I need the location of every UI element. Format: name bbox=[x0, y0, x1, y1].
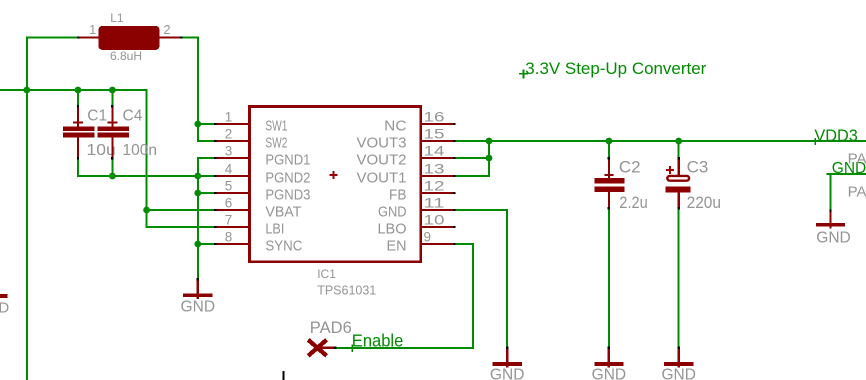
svg-text:TPS61031: TPS61031 bbox=[317, 284, 376, 298]
wire C3 bottom lead bbox=[678, 210, 680, 348]
net label VDD3 bbox=[815, 138, 817, 145]
junction C1 top bbox=[75, 87, 82, 94]
wire to pin8 SYNC bbox=[198, 243, 214, 245]
wire C1 top lead stub bbox=[77, 89, 79, 106]
IC1 pin 5 stub bbox=[214, 192, 217, 194]
wire top VBAT bus y=90 bbox=[0, 89, 148, 91]
C1 bottom lead bbox=[77, 137, 79, 157]
C3 plate 2 bbox=[666, 186, 691, 192]
svg-text:EN: EN bbox=[387, 237, 407, 254]
svg-text:VOUT2: VOUT2 bbox=[357, 151, 407, 168]
svg-text:5: 5 bbox=[225, 179, 233, 194]
IC1 pin 13 stub bbox=[421, 175, 454, 177]
IC1 pin 7 stub bbox=[214, 226, 217, 228]
svg-text:GND: GND bbox=[378, 203, 407, 220]
svg-text:PAD6: PAD6 bbox=[310, 319, 352, 337]
junction C2 top bbox=[606, 138, 613, 145]
capacitor C1 top lead bbox=[77, 105, 79, 108]
svg-text:C3: C3 bbox=[687, 157, 709, 176]
ground under C3 bbox=[678, 347, 680, 350]
IC1 pin 8 stub bbox=[214, 243, 217, 245]
IC1 polarity plus mark bbox=[330, 174, 338, 176]
svg-text:PGND1: PGND1 bbox=[265, 151, 310, 168]
capacitor C3 top lead bbox=[678, 157, 680, 160]
junction bus/left vertical bbox=[23, 87, 30, 94]
svg-text:Enable: Enable bbox=[352, 330, 404, 350]
svg-text:GND: GND bbox=[661, 366, 696, 380]
wire SW vertical x=197.8 bbox=[197, 37, 199, 143]
L1 pin2 stub bbox=[160, 36, 181, 38]
ground under C2 bbox=[608, 347, 610, 350]
svg-text:GND: GND bbox=[181, 299, 216, 316]
junction VOUT2 bbox=[486, 155, 493, 162]
svg-text:VOUT3: VOUT3 bbox=[357, 134, 407, 151]
capacitor C4 top lead bbox=[111, 105, 113, 108]
title 3.3V Step-Up Converter origin cross bbox=[519, 73, 528, 75]
C1 plate 2 bbox=[63, 133, 95, 138]
wire L1 pin2 to corner bbox=[182, 37, 199, 39]
svg-text:15: 15 bbox=[424, 127, 445, 142]
C1 polarity tick bbox=[73, 122, 83, 124]
wire PGND vertical x=197.8 bbox=[197, 157, 199, 279]
IC1 pin 4 stub bbox=[214, 175, 217, 177]
svg-text:4: 4 bbox=[225, 162, 233, 177]
svg-text:100n: 100n bbox=[123, 142, 157, 159]
junction VOUT rail bbox=[486, 138, 493, 145]
junction C4 top bbox=[109, 87, 116, 94]
C4 plate 1 bbox=[97, 126, 129, 131]
svg-text:3: 3 bbox=[225, 144, 233, 159]
C3 plate 1 outline bbox=[667, 176, 689, 181]
pad PAD6 cross bbox=[308, 340, 326, 356]
wire VOUT vertical x=489 bbox=[488, 140, 490, 177]
svg-text:VDD3: VDD3 bbox=[814, 126, 858, 145]
wire pin9 EN bbox=[455, 243, 474, 245]
C4 polarity tick bbox=[107, 122, 117, 124]
svg-text:GND: GND bbox=[0, 299, 9, 316]
svg-text:GND: GND bbox=[592, 366, 627, 380]
svg-text:10: 10 bbox=[424, 213, 445, 228]
IC1 pin 9 stub bbox=[421, 243, 454, 245]
IC1 pin 10 stub bbox=[421, 226, 454, 228]
L1 pin1 stub bbox=[77, 36, 80, 38]
IC1 pin 2 stub bbox=[214, 140, 217, 142]
svg-text:16: 16 bbox=[424, 110, 445, 125]
svg-text:L1: L1 bbox=[110, 11, 124, 25]
svg-text:GND: GND bbox=[816, 230, 851, 247]
ground top right bbox=[829, 210, 831, 213]
wire to pin3 PGND1 bbox=[197, 157, 214, 159]
svg-text:6: 6 bbox=[225, 196, 233, 211]
junction VBAT pin6 bbox=[143, 207, 150, 214]
C4 plate 2 bbox=[97, 133, 129, 138]
wire pin14 VOUT2 bbox=[455, 157, 490, 159]
svg-text:2: 2 bbox=[225, 127, 233, 142]
IC1 pin 6 stub bbox=[214, 209, 217, 211]
C3 plus sign bbox=[666, 169, 674, 171]
C2 polarity tick bbox=[604, 174, 613, 176]
junction SW1 bbox=[194, 121, 201, 128]
wire C1/C4 bottom bus y=176 bbox=[77, 175, 199, 177]
svg-text:SW2: SW2 bbox=[265, 134, 287, 151]
svg-text:6.8uH: 6.8uH bbox=[110, 49, 142, 63]
svg-text:3.3V Step-Up Converter: 3.3V Step-Up Converter bbox=[525, 60, 707, 78]
C1 plate 1 bbox=[63, 126, 95, 131]
IC1 pin 3 stub bbox=[214, 157, 217, 159]
junction SYNC bbox=[194, 241, 201, 248]
wire to pin5 PGND3 bbox=[198, 192, 214, 194]
svg-text:VOUT1: VOUT1 bbox=[357, 169, 407, 186]
svg-text:IC1: IC1 bbox=[317, 267, 336, 281]
svg-text:8: 8 bbox=[225, 230, 233, 245]
svg-text:LBO: LBO bbox=[378, 220, 407, 237]
svg-text:VBAT: VBAT bbox=[265, 203, 301, 220]
wire C4 bottom lead bbox=[111, 159, 113, 177]
svg-text:LBI: LBI bbox=[265, 220, 284, 237]
wire C1 bottom lead bbox=[77, 159, 79, 177]
svg-text:C1: C1 bbox=[87, 107, 107, 124]
wire L1 pin1 branch bbox=[26, 37, 77, 39]
frame border mark bottom bbox=[282, 371, 284, 380]
svg-text:C2: C2 bbox=[619, 157, 641, 176]
wire to pin1 SW1 bbox=[198, 123, 214, 125]
wire LBI to pin7 bbox=[147, 226, 215, 228]
C3 bottom lead bbox=[678, 192, 680, 207]
svg-text:220u: 220u bbox=[687, 193, 721, 212]
junction C4 bottom bbox=[109, 173, 116, 180]
IC1 pin 14 stub bbox=[421, 157, 454, 159]
IC1 pin 11 stub bbox=[421, 209, 454, 211]
C2 plate 2 bbox=[594, 187, 624, 193]
net label Enable bbox=[351, 344, 353, 352]
junction PGND3 bbox=[194, 190, 201, 197]
svg-text:NC: NC bbox=[384, 117, 406, 134]
junction C3 top bbox=[675, 138, 682, 145]
C2 plate 1 bbox=[594, 178, 624, 184]
svg-text:PGND3: PGND3 bbox=[265, 186, 310, 203]
svg-text:1: 1 bbox=[89, 23, 96, 37]
ground under pin11 bbox=[506, 347, 508, 350]
ground under PGND net bbox=[197, 278, 199, 281]
wire pin11 GND bbox=[455, 209, 508, 211]
op-amp U1 IC1 body outline bbox=[250, 107, 421, 262]
svg-text:2.2u: 2.2u bbox=[619, 193, 648, 212]
wire C2 top lead bbox=[608, 140, 610, 157]
svg-text:9: 9 bbox=[424, 230, 432, 245]
svg-text:PAD: PAD bbox=[848, 183, 866, 200]
svg-text:14: 14 bbox=[424, 144, 446, 159]
junction PGND2/bus bbox=[194, 173, 201, 180]
inductor L1 body bbox=[98, 26, 159, 50]
wire Enable horizontal bbox=[336, 347, 473, 349]
wire pin13 VOUT1 bbox=[455, 175, 489, 177]
capacitor C2 top lead bbox=[608, 157, 610, 160]
svg-text:12: 12 bbox=[424, 179, 445, 194]
svg-text:2: 2 bbox=[164, 23, 171, 37]
svg-text:FB: FB bbox=[389, 186, 407, 203]
svg-text:PAD: PAD bbox=[848, 150, 866, 167]
wire C4 top lead stub bbox=[111, 89, 113, 106]
IC1 pin 15 stub bbox=[421, 140, 454, 142]
svg-text:SYNC: SYNC bbox=[265, 237, 302, 254]
wire GND vertical x=507.2 bbox=[506, 210, 508, 347]
wire VDD3 rail y=141 bbox=[455, 140, 866, 142]
IC1 pin 1 stub bbox=[214, 123, 217, 125]
wire C2 bottom lead bbox=[608, 210, 610, 348]
IC1 pin 16 stub bbox=[421, 123, 454, 125]
wire to pin2 SW2 bbox=[197, 140, 214, 142]
svg-text:7: 7 bbox=[225, 213, 233, 228]
wire VBAT to pin6 bbox=[147, 209, 215, 211]
svg-text:PGND2: PGND2 bbox=[265, 169, 310, 186]
C4 bottom lead bbox=[111, 137, 113, 157]
C2 bottom lead bbox=[608, 192, 610, 207]
partial ground symbol left edge bbox=[0, 294, 7, 298]
wire EN vertical x=472.8 bbox=[472, 244, 474, 349]
wire C3 top lead bbox=[678, 140, 680, 157]
wire to pin4 PGND2 bbox=[198, 175, 214, 177]
svg-text:1: 1 bbox=[225, 110, 233, 125]
wire left vertical x=27 to bottom bbox=[26, 37, 28, 380]
svg-text:SW1: SW1 bbox=[265, 117, 287, 134]
svg-text:11: 11 bbox=[424, 196, 445, 211]
svg-text:13: 13 bbox=[424, 162, 445, 177]
svg-text:GND: GND bbox=[490, 366, 525, 380]
wire top-right GND net bbox=[827, 173, 866, 175]
IC1 pin 12 stub bbox=[421, 192, 454, 194]
wire VBAT vertical x=146.6 bbox=[146, 89, 148, 228]
svg-text:C4: C4 bbox=[123, 107, 143, 124]
